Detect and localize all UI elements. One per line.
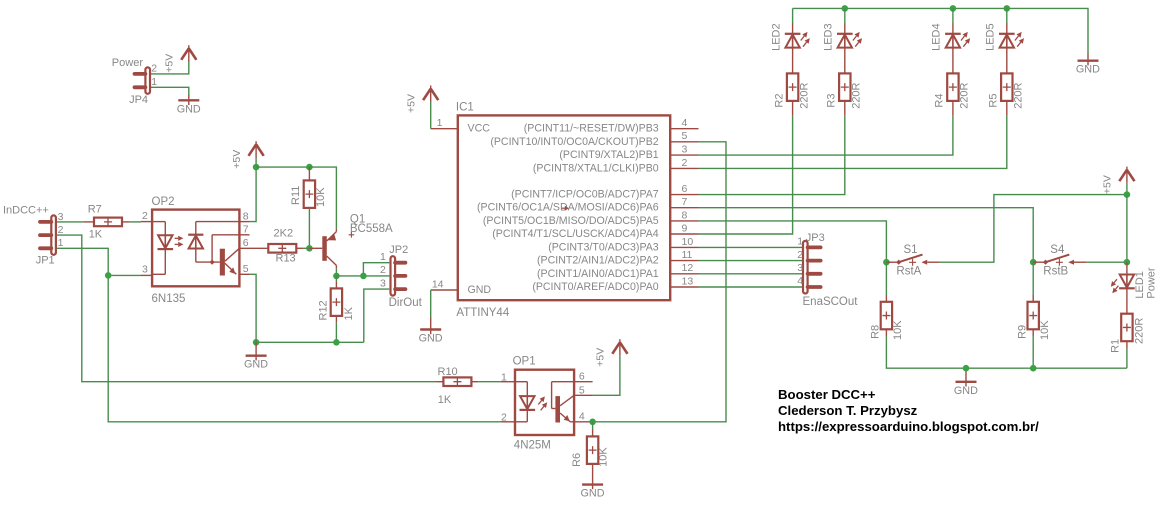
svg-text:2: 2 xyxy=(682,157,688,169)
wire R7 to OP2 pin2 xyxy=(130,221,141,223)
connector JP2 (DirOut) xyxy=(380,244,423,309)
svg-text:+5V: +5V xyxy=(595,348,607,367)
wire OP2 pin5 to ground rail xyxy=(250,274,257,342)
svg-text:GND: GND xyxy=(581,488,605,500)
svg-text:JP3: JP3 xyxy=(806,232,825,244)
svg-text:JP2: JP2 xyxy=(389,244,408,256)
svg-text:3: 3 xyxy=(58,211,64,223)
wire S4 to +5V column xyxy=(1087,261,1127,263)
wire rail to LED4 xyxy=(952,8,954,23)
switch S4 RstB xyxy=(1033,244,1087,277)
ic IC1 pin 1 VCC stub xyxy=(431,117,458,129)
svg-text:+5V: +5V xyxy=(405,94,417,113)
svg-text:2: 2 xyxy=(151,63,157,75)
resistor R1 220R xyxy=(1110,288,1146,353)
resistor R7 1K xyxy=(83,204,129,241)
junction ground rail at GND xyxy=(963,365,970,372)
junction ground rail at R9 xyxy=(1030,365,1037,372)
svg-text:IC1: IC1 xyxy=(456,102,474,114)
junction JP2 pin1/2 tie xyxy=(360,273,367,280)
wire JP4 pin2 to +5V xyxy=(151,61,189,74)
wire PA0 pin13 to JP3.4 xyxy=(699,286,803,288)
svg-text:1K: 1K xyxy=(343,306,355,320)
+5V supply (IC1) xyxy=(405,86,438,114)
svg-text:(PCINT0/AREF/ADC0)PA0: (PCINT0/AREF/ADC0)PA0 xyxy=(532,281,658,293)
svg-text:4: 4 xyxy=(682,117,688,129)
svg-text:7: 7 xyxy=(243,224,249,236)
svg-text:1: 1 xyxy=(797,236,803,248)
svg-text:EnaSCOut: EnaSCOut xyxy=(803,296,859,308)
svg-text:R6: R6 xyxy=(571,453,583,467)
svg-text:3: 3 xyxy=(380,277,386,289)
wire R11 bottom to base node xyxy=(308,208,310,248)
wire JP1.2 down-left column xyxy=(57,235,436,382)
svg-text:220R: 220R xyxy=(1013,82,1025,108)
led LED4 xyxy=(931,23,970,51)
wire R8 to ground rail xyxy=(886,336,1127,368)
wire OP1 pin5 to +5V xyxy=(593,356,620,396)
wire R1 to ground rail xyxy=(1126,349,1128,368)
svg-text:10: 10 xyxy=(682,236,694,248)
junction at JP1.1 column xyxy=(105,272,112,279)
svg-text:R9: R9 xyxy=(1016,325,1028,339)
svg-text:VCC: VCC xyxy=(468,123,491,135)
ground rail wire (OP2 section) xyxy=(256,341,364,343)
ic IC1 right pin stubs and numbers xyxy=(670,117,698,287)
wire OP2 pin8 to +5V node xyxy=(250,167,257,222)
junction +5V right top xyxy=(1124,191,1131,198)
svg-text:12: 12 xyxy=(682,262,694,274)
wire PA6 pin7 to S4 xyxy=(699,208,1034,263)
svg-text:3: 3 xyxy=(142,263,148,275)
wire PA4 pin9 to R2 xyxy=(699,115,793,234)
switch S1 RstA xyxy=(886,244,940,277)
wire PA2 pin11 to JP3.2 xyxy=(699,260,803,262)
led LED1 Power xyxy=(1111,262,1158,298)
svg-text:10K: 10K xyxy=(598,447,610,467)
ground GND (R6) xyxy=(581,485,605,500)
wire R12 bottom to ground rail xyxy=(335,322,337,342)
svg-text:R12: R12 xyxy=(317,300,329,320)
svg-text:3: 3 xyxy=(797,262,803,274)
svg-text:220R: 220R xyxy=(851,82,863,108)
svg-text:InDCC++: InDCC++ xyxy=(3,204,49,216)
junction rail at LED4 xyxy=(950,5,957,12)
junction +5V node xyxy=(253,164,260,171)
svg-text:2: 2 xyxy=(142,210,148,222)
svg-text:Booster DCC++: Booster DCC++ xyxy=(778,387,876,402)
svg-text:(PCINT3/T0/ADC3)PA3: (PCINT3/T0/ADC3)PA3 xyxy=(548,241,659,253)
svg-text:2K2: 2K2 xyxy=(274,228,294,240)
junction R11 top xyxy=(306,164,313,171)
junction ground rail at R12 xyxy=(333,339,340,346)
transistor Q1 BC558A xyxy=(309,214,393,269)
svg-text:3: 3 xyxy=(682,144,688,156)
wire PA5 pin8 to S1 xyxy=(699,221,887,262)
svg-text:R1: R1 xyxy=(1110,339,1122,353)
svg-text:LED3: LED3 xyxy=(823,23,835,51)
svg-text:(PCINT2/AIN1/ADC2)PA2: (PCINT2/AIN1/ADC2)PA2 xyxy=(537,255,659,267)
resistor R2 220R xyxy=(773,49,810,116)
+5V supply (right) xyxy=(1102,167,1135,195)
svg-text:5: 5 xyxy=(243,263,249,275)
svg-text:LED5: LED5 xyxy=(985,23,997,51)
svg-text:Power: Power xyxy=(112,57,144,69)
svg-text:GND: GND xyxy=(468,284,492,296)
wire R9 to ground rail xyxy=(1032,336,1034,368)
wire IC1 GND down xyxy=(430,290,432,318)
svg-text:DirOut: DirOut xyxy=(389,297,423,309)
svg-text:S4: S4 xyxy=(1050,244,1065,256)
wire collector node to JP2 pins 1-2 xyxy=(336,275,363,277)
svg-text:1: 1 xyxy=(437,117,443,129)
svg-text:Clederson T. Przybysz: Clederson T. Przybysz xyxy=(778,403,918,418)
svg-text:R7: R7 xyxy=(88,204,102,216)
led LED3 xyxy=(823,23,862,51)
svg-text:11: 11 xyxy=(682,249,693,261)
svg-text:8: 8 xyxy=(682,209,688,221)
resistor R5 220R xyxy=(988,49,1025,116)
junction rail at LED5 xyxy=(1004,5,1011,12)
resistor R4 220R xyxy=(934,49,971,116)
connector JP4 (Power) xyxy=(112,57,157,106)
svg-text:BC558A: BC558A xyxy=(350,223,393,235)
svg-text:1: 1 xyxy=(380,251,386,263)
led LED5 xyxy=(985,23,1024,51)
wire rail to LED2 xyxy=(792,8,794,23)
svg-text:1: 1 xyxy=(58,237,64,249)
optocoupler OP1 4N25M xyxy=(500,355,592,451)
ground GND (JP4) xyxy=(177,95,201,115)
svg-text:7: 7 xyxy=(682,196,688,208)
wire R10 to OP1 pin1 xyxy=(478,381,500,383)
svg-text:8: 8 xyxy=(243,210,249,222)
svg-text:+5V: +5V xyxy=(164,54,176,73)
svg-text:(PCINT11/~RESET/DW)PB3: (PCINT11/~RESET/DW)PB3 xyxy=(524,123,659,135)
svg-text:4: 4 xyxy=(579,411,585,423)
wire R11 top to Q1 emitter column xyxy=(309,167,336,229)
wire S1 to +5V node xyxy=(940,195,1127,263)
svg-text:LED4: LED4 xyxy=(931,23,943,51)
svg-text:R8: R8 xyxy=(870,325,882,339)
junction rail at LED3 xyxy=(842,5,849,12)
junction +5V at S4/LED1 xyxy=(1124,259,1131,266)
optocoupler OP2 6N135 xyxy=(141,196,250,305)
svg-text:OP2: OP2 xyxy=(152,196,175,208)
svg-text:(PCINT4/T1/SCL/USCK/ADC4)PA4: (PCINT4/T1/SCL/USCK/ADC4)PA4 xyxy=(492,228,659,240)
resistor R11 10K xyxy=(290,167,327,208)
svg-text:R13: R13 xyxy=(276,253,296,265)
svg-text:GND: GND xyxy=(244,359,268,371)
svg-text:R5: R5 xyxy=(988,94,1000,108)
svg-text:10K: 10K xyxy=(315,187,327,207)
wire JP2 pin3 to ground rail xyxy=(364,289,390,342)
resistor R6 10K xyxy=(571,422,610,489)
wire PB1 pin3 to R4 xyxy=(699,115,953,155)
ic IC1 pin names xyxy=(477,123,659,293)
ground GND (OP2) xyxy=(244,342,268,370)
svg-text:R2: R2 xyxy=(773,94,785,108)
wire +5V column down xyxy=(1126,195,1128,263)
wire rail to LED3 xyxy=(844,8,846,23)
ground GND (right rail) xyxy=(954,368,978,397)
svg-text:GND: GND xyxy=(1076,64,1100,76)
svg-text:1K: 1K xyxy=(438,394,452,406)
svg-text:LED1: LED1 xyxy=(1134,271,1146,299)
svg-text:JP4: JP4 xyxy=(129,94,148,106)
title text xyxy=(778,387,1039,434)
svg-text:R11: R11 xyxy=(290,186,302,205)
svg-text:220R: 220R xyxy=(1134,318,1146,344)
svg-text:4: 4 xyxy=(797,275,803,287)
svg-text:JP1: JP1 xyxy=(36,255,55,267)
svg-text:6N135: 6N135 xyxy=(152,293,186,305)
svg-text:(PCINT5/OC1B/MISO/DO/ADC5)PA5: (PCINT5/OC1B/MISO/DO/ADC5)PA5 xyxy=(483,215,659,227)
+5V supply (OP2/Q1) xyxy=(231,141,264,169)
svg-text:(PCINT10/INT0/OC0A/CKOUT)PB2: (PCINT10/INT0/OC0A/CKOUT)PB2 xyxy=(490,136,658,148)
ground GND (LED rail) xyxy=(1076,53,1100,76)
junction ground rail left xyxy=(253,339,260,346)
svg-text:(PCINT9/XTAL2)PB1: (PCINT9/XTAL2)PB1 xyxy=(559,149,658,161)
svg-text:4N25M: 4N25M xyxy=(514,440,551,452)
connector JP3 (EnaSCOut) xyxy=(797,232,858,308)
svg-text:6: 6 xyxy=(579,371,585,383)
ic IC1 ATTINY44 xyxy=(456,102,670,320)
resistor R3 220R xyxy=(826,49,863,116)
svg-text:R3: R3 xyxy=(826,94,838,108)
svg-text:1K: 1K xyxy=(89,229,103,241)
ic IC1 pin 14 GND stub xyxy=(431,278,458,290)
svg-text:5: 5 xyxy=(579,384,585,396)
wire PA1 pin12 to JP3.3 xyxy=(699,273,803,275)
svg-text:1: 1 xyxy=(501,372,507,384)
wire PB2 pin5 to OP1 pin4 column xyxy=(593,142,726,422)
svg-text:10K: 10K xyxy=(892,320,904,340)
svg-text:GND: GND xyxy=(954,385,978,397)
svg-text:13: 13 xyxy=(682,275,694,287)
svg-text:1: 1 xyxy=(151,76,157,88)
svg-text:ATTINY44: ATTINY44 xyxy=(456,307,509,319)
wire JP4 pin1 to GND xyxy=(151,87,189,96)
wire +5V node to R11 top xyxy=(256,166,309,168)
svg-text:2: 2 xyxy=(58,224,64,236)
resistor R8 10K xyxy=(870,262,905,340)
svg-text:(PCINT8/XTAL1/CLKI)PB0: (PCINT8/XTAL1/CLKI)PB0 xyxy=(533,162,659,174)
svg-text:2: 2 xyxy=(501,411,507,423)
svg-text:(PCINT7/ICP/OC0B/ADC7)PA7: (PCINT7/ICP/OC0B/ADC7)PA7 xyxy=(511,189,659,201)
svg-text:14: 14 xyxy=(432,278,444,290)
svg-text:2: 2 xyxy=(797,249,803,261)
svg-text:R4: R4 xyxy=(934,94,946,108)
svg-text:220R: 220R xyxy=(798,82,810,108)
svg-text:https://expressoarduino.blogsp: https://expressoarduino.blogspot.com.br/ xyxy=(778,419,1039,434)
junction Q1 collector node xyxy=(333,273,340,280)
svg-text:2: 2 xyxy=(380,264,386,276)
resistor R12 1K xyxy=(317,276,354,323)
connector JP1 (InDCC++) xyxy=(3,204,64,266)
svg-text:RstB: RstB xyxy=(1043,266,1068,278)
resistor R10 1K xyxy=(436,366,478,406)
svg-text:6: 6 xyxy=(243,237,249,249)
svg-text:OP1: OP1 xyxy=(513,355,536,367)
wire PB0 pin2 to R5 xyxy=(699,115,1007,168)
wire JP1.3 to R7 xyxy=(57,221,84,223)
svg-text:(PCINT1/AIN0/ADC1)PA1: (PCINT1/AIN0/ADC1)PA1 xyxy=(537,268,659,280)
junction S1 left node xyxy=(883,259,890,266)
svg-text:6: 6 xyxy=(682,183,688,195)
led LED2 xyxy=(770,23,809,51)
wire rail to LED5 xyxy=(1006,8,1008,23)
svg-text:S1: S1 xyxy=(904,244,918,256)
+5V supply (OP1) xyxy=(595,339,628,367)
ground GND (IC1) xyxy=(419,318,443,345)
wire Q1 collector to JP2/R12 node xyxy=(335,268,337,276)
wire PA3 pin10 to JP3.1 xyxy=(699,246,803,248)
svg-text:Power: Power xyxy=(1145,267,1157,299)
svg-text:10K: 10K xyxy=(1039,320,1051,340)
svg-text:220R: 220R xyxy=(959,82,971,108)
wire R13 to base node xyxy=(303,247,310,249)
junction OP1 pin4 node xyxy=(589,419,596,426)
wire node to OP2 pin3 xyxy=(108,274,141,276)
wire PA7 pin6 to R3 xyxy=(699,115,845,194)
resistor R9 10K xyxy=(1016,262,1051,340)
svg-text:5: 5 xyxy=(682,130,688,142)
svg-text:GND: GND xyxy=(177,103,201,115)
svg-text:RstA: RstA xyxy=(896,266,921,278)
wire JP1.1 to OP2 pin3 and OP1 pin2 xyxy=(57,248,501,421)
wire LED top rail to GND xyxy=(793,8,1088,53)
+5V supply (JP4) xyxy=(164,45,197,72)
wire IC1 VCC to +5V xyxy=(430,102,432,129)
svg-text:R10: R10 xyxy=(438,366,458,378)
svg-text:+5V: +5V xyxy=(231,150,243,169)
net mark on SDA xyxy=(562,206,569,211)
svg-text:+5V: +5V xyxy=(1102,175,1114,194)
svg-text:GND: GND xyxy=(419,333,443,345)
resistor R13 2K2 xyxy=(240,228,303,265)
svg-text:LED2: LED2 xyxy=(770,23,782,51)
svg-text:9: 9 xyxy=(682,222,688,234)
junction Q1 base node xyxy=(306,245,313,252)
junction S4 left node xyxy=(1030,259,1037,266)
